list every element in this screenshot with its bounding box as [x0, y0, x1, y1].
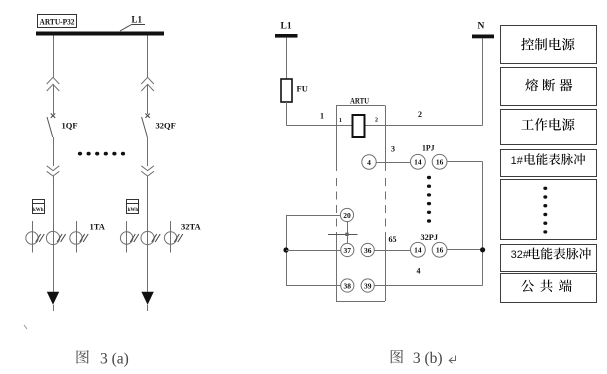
svg-text:2: 2 [375, 118, 378, 124]
wire number 4 [417, 267, 421, 276]
label 1PJ [422, 143, 435, 153]
wire [53, 137, 55, 166]
pin number 1 [339, 118, 342, 124]
label 1QF [62, 121, 78, 131]
current transformer 32TA phase C [164, 221, 182, 253]
svg-text:kWh: kWh [128, 207, 139, 213]
energy meter kWh box [127, 200, 140, 214]
wire [147, 84, 149, 114]
terminal circle 37 [341, 243, 354, 256]
current transformer 32TA phase B [141, 231, 160, 244]
wire fuse to ARTU pin 1 [286, 102, 336, 126]
svg-text:39: 39 [364, 281, 372, 290]
wire number 2 [418, 110, 422, 119]
wire left rail to 20 [286, 215, 340, 217]
wire feeder drop [147, 36, 149, 78]
busbar label L1 [132, 15, 143, 25]
wire 36 to 14 (32PJ) [374, 250, 410, 252]
current transformer 1TA phase B [46, 231, 65, 244]
label 32TA [181, 222, 202, 232]
terminal circle 16 (1PJ) [432, 154, 447, 169]
svg-text:32QF: 32QF [156, 121, 176, 131]
table row box (dots) [501, 180, 597, 240]
wire 20 to 37 [347, 222, 349, 244]
svg-text:16: 16 [436, 158, 444, 167]
wire [147, 137, 149, 166]
table text 1#电能表脉冲 [511, 153, 586, 167]
busbar label L1 leader [120, 25, 145, 32]
drawout contact chevrons top [47, 77, 60, 91]
terminal N [472, 22, 494, 39]
table row box 1#电能表脉冲 [501, 150, 597, 177]
terminal circle 20 [340, 208, 353, 221]
svg-text:1TA: 1TA [90, 222, 106, 232]
terminal circle 14 (1PJ) [411, 154, 426, 169]
stray mark [24, 325, 27, 329]
label 32PJ [421, 232, 439, 242]
svg-text:3: 3 [391, 145, 395, 154]
outgoing feeder arrow [141, 292, 153, 311]
svg-text:N: N [478, 22, 485, 32]
table row box 熔断器 [501, 68, 597, 106]
svg-text:FU: FU [297, 84, 308, 94]
wire 39 to common rail [374, 285, 482, 287]
ARTU enclosure left solid upper [336, 106, 338, 172]
ARTU power module [353, 115, 365, 137]
current transformer 1TA phase C [70, 221, 88, 253]
svg-text:14: 14 [414, 158, 422, 167]
label FU [297, 84, 308, 94]
svg-text:32PJ: 32PJ [421, 232, 439, 242]
svg-text:1: 1 [339, 118, 342, 124]
table text 工作电源 [521, 118, 574, 130]
junction dot common rail [480, 247, 485, 252]
junction dot left rail [283, 247, 288, 252]
svg-text:kWh: kWh [33, 207, 44, 213]
svg-text:20: 20 [343, 211, 351, 220]
label 32QF [156, 121, 176, 131]
caption 图 3(a) [77, 350, 129, 367]
svg-text:2: 2 [418, 110, 422, 119]
svg-text:1PJ: 1PJ [422, 143, 435, 153]
label 65 [389, 235, 397, 244]
current transformer 1TA phase A [26, 221, 44, 253]
wire 16 (32PJ) to rail junction [447, 249, 483, 251]
fuse FU [281, 79, 292, 102]
left rail vertical [286, 215, 288, 286]
outgoing feeder arrow [47, 292, 59, 311]
svg-text:65: 65 [389, 235, 397, 244]
ARTU enclosure left solid lower [336, 236, 338, 301]
wire through ARTU power input [336, 125, 385, 127]
terminal circle 14 (32PJ) [411, 242, 426, 257]
svg-text:14: 14 [414, 246, 422, 255]
table row box 工作电源 [501, 110, 597, 145]
terminal circle 38 [341, 279, 354, 292]
svg-text:1: 1 [320, 112, 324, 121]
wire left rail to 38 [286, 285, 341, 287]
wire left rail to 37 [286, 250, 341, 252]
svg-text:32TA: 32TA [181, 222, 202, 232]
terminal circle 4 [362, 155, 376, 169]
svg-text:1#: 1# [511, 155, 524, 167]
ARTU enclosure top [336, 105, 385, 107]
wire [53, 84, 55, 114]
pin number 2 [375, 118, 378, 124]
ARTU enclosure right solid upper [385, 106, 387, 172]
terminal circle 16 (32PJ) [432, 242, 447, 257]
svg-text:ARTU-P32: ARTU-P32 [40, 18, 75, 27]
test tick with junction square [328, 233, 358, 236]
wire 4 to 1PJ [376, 162, 410, 164]
svg-text:3 (b): 3 (b) [413, 350, 443, 367]
wire N drop [482, 38, 484, 125]
drawout contact chevrons bottom [47, 166, 60, 176]
ARTU enclosure right dashed [385, 178, 387, 236]
svg-text:38: 38 [344, 281, 352, 290]
busbar L1 (diagram a) [36, 32, 164, 36]
common rail vertical [482, 162, 484, 286]
terminal circle 36 [361, 243, 374, 256]
table row box 控制电源 [501, 26, 597, 64]
svg-text:37: 37 [344, 246, 352, 255]
svg-text:16: 16 [436, 246, 444, 255]
drawout contact chevrons bottom [141, 166, 154, 176]
ARTU enclosure bottom [336, 301, 385, 303]
svg-text:4: 4 [367, 158, 371, 167]
wire feeder main [53, 176, 55, 292]
terminal L1 (diagram b) [275, 22, 298, 38]
wire L1 drop [286, 38, 288, 79]
svg-text:L1: L1 [132, 15, 143, 25]
ARTU enclosure right solid lower [385, 236, 387, 301]
svg-text:ARTU: ARTU [350, 97, 369, 106]
table row box 公共端 [501, 274, 597, 303]
svg-text:3 (a): 3 (a) [100, 350, 129, 367]
caption 图 3(b) [391, 350, 456, 367]
ellipsis dots (repeated feeders) [78, 152, 125, 156]
svg-text:4: 4 [417, 267, 421, 276]
wire number 1 [320, 112, 324, 121]
table text 公共端 [521, 280, 572, 292]
wire 16 to common rail [447, 161, 483, 163]
ellipsis dots (repeated pulse circuits) [427, 176, 431, 223]
table text 熔断器 [525, 79, 572, 92]
table row box 32#电能表脉冲 [501, 245, 597, 272]
ARTU-P32 device label box [38, 15, 77, 28]
ARTU enclosure left dashed [336, 178, 338, 236]
terminal circle 39 [361, 279, 374, 292]
svg-text:1QF: 1QF [62, 121, 78, 131]
label 1TA [90, 222, 106, 232]
energy meter kWh box [32, 200, 45, 214]
table text 控制电源 [521, 38, 574, 50]
wire number 3 [391, 145, 395, 154]
svg-text:L1: L1 [281, 22, 292, 32]
circuit breaker 32QF [142, 114, 150, 138]
wire feeder main [147, 176, 149, 292]
svg-text:32#: 32# [511, 249, 530, 261]
svg-text:36: 36 [364, 246, 372, 255]
drawout contact chevrons top [141, 77, 154, 91]
current transformer 32TA phase A [120, 221, 138, 253]
table text 32#电能表脉冲 [511, 248, 591, 261]
table ellipsis dots [543, 187, 547, 234]
wire feeder drop [53, 36, 55, 78]
label ARTU [350, 97, 369, 106]
wire ARTU pin 2 to N [385, 125, 482, 127]
circuit breaker 1QF [47, 114, 55, 138]
